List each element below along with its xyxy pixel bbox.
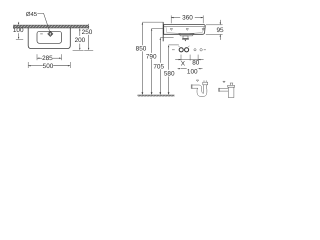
dimension 100 (lower small dim) bbox=[178, 68, 179, 70]
svg-text:850: 850 bbox=[136, 46, 147, 53]
svg-text:200: 200 bbox=[75, 37, 86, 44]
dimension X / 80 (upper small dims) bbox=[180, 55, 182, 61]
wall (hatched band, top view) bbox=[13, 25, 88, 28]
dimension 850 (height of rim) bbox=[142, 21, 163, 23]
bottle trap bbox=[219, 83, 235, 98]
svg-text:100: 100 bbox=[187, 68, 198, 75]
leader line for Ø45 bbox=[37, 13, 49, 31]
svg-text:X: X bbox=[181, 60, 186, 67]
washbasin side profile bbox=[164, 25, 206, 35]
fixing bolt circle 2 bbox=[200, 49, 202, 51]
tick on supply 2 bbox=[188, 46, 189, 47]
drain tailpiece bbox=[183, 36, 188, 39]
dimension 705 bbox=[160, 37, 173, 39]
water level mark (P-trap) bbox=[196, 80, 198, 82]
svg-text:360: 360 bbox=[182, 15, 193, 22]
dimension 285 (below bowl) bbox=[36, 54, 38, 60]
drain flow arrow bbox=[185, 40, 187, 42]
svg-text:80: 80 bbox=[192, 60, 200, 67]
tap hole (diamond) bbox=[48, 31, 53, 36]
svg-text:Ø45: Ø45 bbox=[26, 11, 38, 18]
dimension 100 (left) bbox=[18, 21, 20, 24]
fixing bolt circle 1 bbox=[194, 49, 196, 51]
tailpiece lip bbox=[183, 38, 189, 41]
P-trap (siphon) bbox=[191, 80, 208, 96]
dimension 500 (below basin) bbox=[27, 62, 29, 68]
svg-text:95: 95 bbox=[216, 27, 224, 34]
dimension 200 (right of basin) bbox=[79, 28, 80, 30]
tick on supply 1 bbox=[178, 46, 179, 47]
centerline dash left of tap hole bbox=[40, 33, 43, 35]
drain flange bbox=[179, 34, 194, 36]
washbasin outer rim (top view) bbox=[28, 28, 70, 49]
svg-text:100: 100 bbox=[13, 27, 24, 34]
dimension 580 bbox=[169, 44, 179, 46]
water supply connection 2 bbox=[185, 48, 189, 52]
svg-text:285: 285 bbox=[42, 55, 53, 62]
svg-text:250: 250 bbox=[82, 29, 93, 36]
water supply centerline dash left bbox=[172, 49, 175, 51]
tap hole circle bbox=[49, 33, 51, 35]
inner bowl (top view) bbox=[37, 31, 62, 43]
water level mark (bottle trap) bbox=[223, 81, 225, 83]
svg-text:705: 705 bbox=[153, 64, 164, 71]
rim inner line bbox=[164, 26, 205, 28]
fixing point marks bbox=[170, 29, 172, 31]
dimension 95 (right of side view) bbox=[206, 24, 223, 26]
dimension 250 (far right) bbox=[88, 24, 90, 25]
interior slope lines bbox=[167, 33, 182, 34]
dimension 360 (above side view) bbox=[170, 15, 172, 23]
svg-text:500: 500 bbox=[43, 63, 54, 70]
water supply connection 1 bbox=[179, 48, 183, 52]
dimension 790 bbox=[152, 27, 164, 29]
wall line (side view) bbox=[162, 22, 164, 41]
floor (hatched band) bbox=[138, 95, 175, 96]
svg-text:580: 580 bbox=[164, 71, 175, 78]
centerline dash right bbox=[204, 49, 206, 51]
